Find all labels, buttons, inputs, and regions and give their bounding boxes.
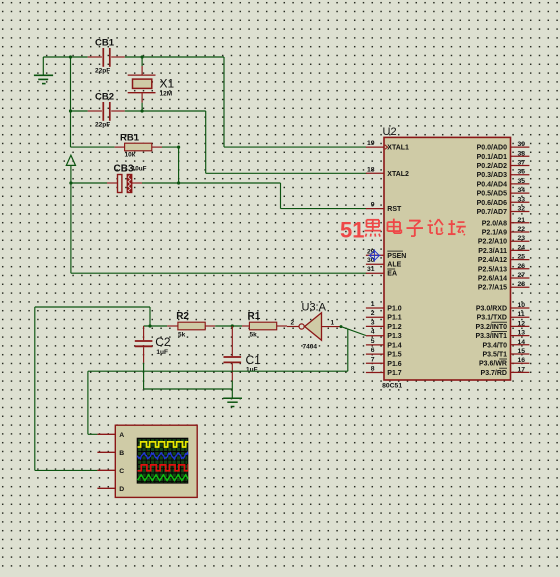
- red text hanzi dian: [388, 219, 402, 234]
- resistor RB1: [115, 143, 162, 151]
- svg-text:22pF: 22pF: [95, 68, 110, 75]
- capacitor CB1: [88, 48, 125, 67]
- wire C1 bottom to ground: [231, 381, 233, 398]
- svg-text:9: 9: [371, 202, 375, 209]
- pin 14 P3.4/T0: [482, 339, 529, 350]
- waveform traces: [138, 442, 197, 481]
- label C1: [246, 353, 262, 367]
- pin 22 P2.1/A9: [482, 226, 530, 237]
- pin 15 P3.5/T1: [482, 348, 529, 359]
- svg-text:P1.6: P1.6: [387, 361, 402, 368]
- svg-text:36: 36: [518, 169, 526, 176]
- svg-text:39: 39: [518, 141, 526, 148]
- pin 2 P1.1: [366, 310, 402, 322]
- svg-text:25: 25: [518, 254, 526, 261]
- svg-text:P1.0: P1.0: [387, 306, 402, 313]
- pin 3 P1.2: [366, 319, 402, 331]
- pin 26 P2.5/A13: [478, 263, 530, 274]
- red text hanzi zi: [407, 221, 424, 237]
- svg-text:XTAL1: XTAL1: [387, 145, 409, 152]
- value 22pF CB1: [95, 68, 110, 75]
- label U2: [383, 126, 397, 138]
- value 5k R1: [250, 332, 258, 339]
- wire ground vertical: [70, 57, 72, 147]
- chip U2 body: [384, 137, 511, 380]
- svg-text:5: 5: [371, 338, 375, 345]
- svg-text:P1.5: P1.5: [387, 352, 402, 359]
- svg-text:22pF: 22pF: [95, 122, 110, 129]
- pin 18 XTAL2: [366, 166, 409, 178]
- pin 38 P0.1/AD1: [477, 150, 530, 161]
- svg-text:37: 37: [518, 160, 526, 167]
- power terminal VCC: [66, 155, 75, 183]
- svg-text:2: 2: [371, 310, 375, 317]
- svg-text:B: B: [119, 450, 124, 457]
- node inverter out junction: [340, 325, 343, 328]
- wire C2 bottom to ground: [144, 388, 233, 390]
- svg-text:3: 3: [371, 319, 375, 326]
- red text hanzi tan: [448, 220, 466, 235]
- svg-text:U2: U2: [383, 126, 397, 138]
- pin 36 P0.3/AD3: [477, 169, 530, 180]
- label CB2: [95, 92, 114, 103]
- label CB3: [114, 164, 134, 175]
- svg-text:18: 18: [367, 166, 375, 173]
- node main wire left: [148, 324, 151, 327]
- svg-text:35: 35: [518, 178, 526, 185]
- pin 39 P0.0/AD0: [477, 141, 530, 152]
- pin 23 P2.2/A10: [478, 235, 530, 246]
- value 1uF C2: [156, 349, 168, 356]
- svg-text:P2.4/A12: P2.4/A12: [478, 257, 507, 264]
- svg-text:2: 2: [291, 320, 295, 327]
- label R2: [176, 311, 189, 322]
- svg-text:23: 23: [518, 235, 526, 242]
- pin number 2 U3: [291, 320, 295, 327]
- pin 34 P0.5/AD5: [477, 187, 530, 198]
- capacitor CB2: [88, 102, 125, 121]
- svg-text:15: 15: [518, 348, 526, 355]
- wire CB2 row: [71, 110, 88, 112]
- pin 27 P2.6/A14: [478, 272, 530, 283]
- svg-text:C2: C2: [155, 335, 171, 349]
- svg-text:11: 11: [518, 311, 525, 318]
- pin 21 P2.0/A8: [482, 217, 530, 228]
- scope channel D pin: [97, 486, 124, 493]
- svg-text:22: 22: [518, 226, 526, 233]
- pin 9 RST: [366, 202, 402, 214]
- svg-text:CB2: CB2: [95, 92, 114, 103]
- pin 6 P1.5: [366, 347, 402, 359]
- svg-text:X1: X1: [160, 76, 175, 90]
- svg-text:P3.0/RXD: P3.0/RXD: [476, 306, 507, 313]
- label 80C51: [382, 382, 402, 389]
- node X1 bottom junction: [141, 109, 144, 112]
- crystal X1: [128, 57, 156, 111]
- scope channel C pin: [97, 468, 124, 475]
- wire to XTAL1 pin: [224, 146, 367, 148]
- svg-text:P1.7: P1.7: [387, 370, 402, 377]
- node X1 top junction: [141, 55, 144, 58]
- svg-text:13: 13: [518, 330, 526, 337]
- svg-text:ALE: ALE: [387, 262, 401, 269]
- pin 32 P0.7/AD7: [477, 206, 530, 217]
- pin 13 P3.3/INT1: [475, 330, 529, 341]
- svg-text:D: D: [119, 486, 124, 493]
- value 7404: [303, 344, 318, 351]
- wire scope-A down: [87, 371, 89, 434]
- wire RB1 right: [162, 146, 179, 148]
- svg-text:A: A: [119, 432, 124, 439]
- svg-text:P1.3: P1.3: [387, 333, 402, 340]
- red text 51: [340, 217, 364, 242]
- svg-text:P3.6/WR: P3.6/WR: [479, 361, 507, 368]
- svg-text:10: 10: [518, 302, 526, 309]
- wire main RC row: [144, 325, 168, 327]
- value 10k RB1: [125, 152, 136, 159]
- scope screen: [137, 438, 189, 484]
- wire scope-C to scope: [35, 469, 98, 471]
- wire ground vert to RB1: [71, 146, 115, 148]
- svg-text:27: 27: [518, 272, 526, 279]
- svg-text:P1.2: P1.2: [387, 324, 402, 331]
- value 10uF CB3: [132, 165, 147, 172]
- pin 11 P3.1/TXD: [477, 311, 530, 322]
- pin 33 P0.6/AD6: [477, 196, 530, 207]
- svg-text:38: 38: [518, 150, 526, 157]
- wire diagonal to P1.3: [341, 327, 366, 336]
- label R1: [248, 311, 261, 322]
- svg-text:21: 21: [518, 217, 526, 224]
- svg-text:8: 8: [371, 366, 375, 373]
- svg-text:RB1: RB1: [120, 133, 140, 144]
- value 12M: [160, 91, 173, 98]
- value 1uF C1: [246, 367, 258, 374]
- svg-text:P0.4/AD4: P0.4/AD4: [477, 181, 507, 188]
- svg-text:7: 7: [371, 356, 375, 363]
- node CB3 left junction: [69, 181, 72, 184]
- svg-text:P2.3/A11: P2.3/A11: [478, 248, 507, 255]
- scope channel B pin: [97, 450, 124, 457]
- origin marker: [369, 249, 381, 261]
- wire RST net down: [280, 183, 282, 209]
- label X1: [160, 76, 175, 90]
- pin 1 P1.0: [366, 301, 402, 313]
- svg-text:P2.6/A14: P2.6/A14: [478, 276, 507, 283]
- node top-gnd-vertical junction: [69, 55, 72, 58]
- svg-text:4: 4: [371, 329, 375, 336]
- svg-text:P1.4: P1.4: [387, 342, 402, 349]
- wire R1 to inverter bubble: [287, 326, 299, 328]
- pin 37 P0.2/AD2: [477, 160, 530, 171]
- svg-text:19: 19: [367, 140, 375, 147]
- wire CB2 right to corner: [125, 110, 206, 112]
- svg-text:33: 33: [518, 196, 526, 203]
- value 22pF CB2: [95, 122, 110, 129]
- pin 29 PSEN: [366, 248, 406, 259]
- svg-text:34: 34: [518, 187, 526, 194]
- svg-text:C: C: [119, 468, 124, 475]
- wire to EA pin: [71, 272, 367, 274]
- label U3:A: [302, 302, 327, 314]
- svg-text:R1: R1: [248, 311, 261, 322]
- svg-text:PSEN: PSEN: [387, 253, 406, 260]
- wire corner down to XTAL2 row: [205, 111, 207, 173]
- wire scope-C long vertical: [34, 307, 36, 470]
- svg-text:24: 24: [518, 244, 526, 251]
- svg-text:P3.3/INT1: P3.3/INT1: [475, 333, 507, 340]
- wire VCC down to EA row: [70, 183, 72, 273]
- svg-text:10uF: 10uF: [132, 165, 147, 172]
- svg-text:6: 6: [371, 347, 375, 354]
- capacitor C1: [224, 326, 242, 381]
- svg-text:1uF: 1uF: [156, 349, 168, 356]
- node RB1 right junction: [177, 146, 180, 149]
- pin 10 P3.0/RXD: [476, 302, 530, 313]
- svg-text:26: 26: [518, 263, 526, 270]
- pin 7 P1.6: [366, 356, 402, 368]
- svg-text:P0.7/AD7: P0.7/AD7: [477, 209, 507, 216]
- svg-text:1: 1: [371, 301, 375, 308]
- wire inverter out down: [347, 329, 349, 371]
- wire RB1 to CB3 level: [178, 147, 180, 183]
- svg-text:RST: RST: [387, 206, 402, 213]
- ground: [34, 57, 53, 84]
- wire scope-C riser top: [149, 307, 151, 326]
- svg-text:P0.0/AD0: P0.0/AD0: [477, 145, 507, 152]
- wire scope-A to scope: [88, 433, 98, 435]
- svg-text:P2.0/A8: P2.0/A8: [482, 220, 507, 227]
- red text hanzi lun: [428, 219, 444, 234]
- svg-text:P1.1: P1.1: [387, 315, 402, 322]
- pin 31 EA: [366, 266, 397, 278]
- pin 17 P3.7/RD: [481, 366, 530, 377]
- svg-text:CB1: CB1: [95, 38, 115, 49]
- resistor R1: [242, 322, 287, 330]
- svg-text:EA: EA: [387, 271, 397, 278]
- wire C2 bottom down: [143, 363, 145, 389]
- svg-text:P0.1/AD1: P0.1/AD1: [477, 154, 507, 161]
- pin 8 P1.7: [366, 366, 402, 378]
- op-amp U3:A inverter: [299, 313, 322, 341]
- svg-text:P0.6/AD6: P0.6/AD6: [477, 200, 507, 207]
- scope channel A pin: [97, 432, 124, 439]
- pin 5 P1.4: [366, 338, 402, 350]
- svg-text:80C51: 80C51: [382, 382, 402, 389]
- svg-text:31: 31: [367, 266, 375, 273]
- svg-text:P3.7/RD: P3.7/RD: [481, 370, 507, 377]
- svg-text:P2.5/A13: P2.5/A13: [478, 266, 507, 273]
- wire to RST pin: [281, 208, 367, 210]
- svg-text:P3.1/TXD: P3.1/TXD: [477, 315, 507, 322]
- svg-text:P0.3/AD3: P0.3/AD3: [477, 172, 507, 179]
- wire top XTAL1 net (gnd to CB1): [43, 56, 87, 58]
- svg-text:P0.2/AD2: P0.2/AD2: [477, 163, 507, 170]
- svg-text:P2.2/A10: P2.2/A10: [478, 239, 507, 246]
- svg-text:51: 51: [340, 217, 364, 242]
- node CB3 right junction: [177, 181, 180, 184]
- svg-text:C1: C1: [246, 353, 262, 367]
- svg-text:P2.7/A15: P2.7/A15: [478, 285, 507, 292]
- wire scope-C horizontal: [35, 306, 150, 308]
- pin 35 P0.4/AD4: [477, 178, 530, 189]
- pin 30 ALE: [366, 257, 402, 269]
- svg-text:5k: 5k: [178, 332, 186, 339]
- red text hanzi hei: [365, 220, 382, 237]
- label C2: [155, 335, 171, 349]
- svg-text:U3:A: U3:A: [302, 302, 327, 314]
- node C1 top junction: [231, 324, 234, 327]
- oscilloscope body: [115, 425, 197, 497]
- svg-text:1: 1: [331, 320, 335, 327]
- wire RST net horizontal: [179, 182, 281, 184]
- pin 12 P3.2/INT0: [475, 320, 529, 331]
- pin number 1 U3: [331, 320, 335, 327]
- label RB1: [120, 133, 140, 144]
- svg-text:14: 14: [518, 339, 526, 346]
- svg-text:P2.1/A9: P2.1/A9: [482, 230, 507, 237]
- svg-text:7404: 7404: [303, 344, 318, 351]
- svg-text:12: 12: [518, 320, 526, 327]
- svg-text:30: 30: [367, 257, 375, 264]
- value 5k R2: [178, 332, 186, 339]
- pin 16 P3.6/WR: [479, 357, 529, 368]
- pin 28 P2.7/A15: [478, 281, 530, 292]
- svg-text:XTAL2: XTAL2: [387, 171, 409, 178]
- wire R2 to R1: [215, 325, 242, 327]
- svg-text:P3.4/T0: P3.4/T0: [482, 342, 507, 349]
- label CB1: [95, 38, 115, 49]
- wire to XTAL2 pin: [206, 172, 367, 174]
- svg-text:10k: 10k: [125, 152, 136, 159]
- wire scope-A horizontal: [88, 370, 348, 372]
- svg-text:17: 17: [518, 366, 526, 373]
- capacitor C2: [135, 326, 153, 363]
- capacitor CB3: [71, 174, 179, 192]
- pin 19 XTAL1: [366, 140, 409, 152]
- node CB2 left junction: [69, 109, 72, 112]
- wire CB1 right to corner: [125, 56, 224, 58]
- resistor R2: [167, 322, 215, 330]
- ground 2: [223, 398, 242, 406]
- svg-text:1uF: 1uF: [246, 367, 258, 374]
- pin 24 P2.3/A11: [478, 244, 529, 255]
- wire inverter output: [322, 326, 342, 328]
- svg-text:16: 16: [518, 357, 526, 364]
- svg-text:P3.2/INT0: P3.2/INT0: [475, 324, 507, 331]
- pin 25 P2.4/A12: [478, 254, 530, 265]
- svg-text:R2: R2: [176, 311, 189, 322]
- svg-text:P0.5/AD5: P0.5/AD5: [477, 191, 507, 198]
- pin 4 P1.3: [366, 329, 402, 341]
- svg-text:5k: 5k: [250, 332, 258, 339]
- svg-text:12M: 12M: [160, 91, 173, 98]
- svg-text:32: 32: [518, 206, 526, 213]
- wire corner down to XTAL1 row: [223, 57, 225, 147]
- svg-text:28: 28: [518, 281, 526, 288]
- svg-text:P3.5/T1: P3.5/T1: [482, 352, 507, 359]
